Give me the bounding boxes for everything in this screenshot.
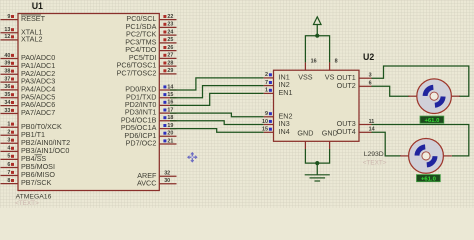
U1 pin 26 PC4/TDO: [125, 45, 176, 54]
U1 pin 6 PB5/MOSI: [1, 162, 55, 171]
svg-text:16: 16: [311, 59, 317, 65]
svg-text:12: 12: [4, 34, 10, 40]
wire power rail to VSS and VS: [305, 36, 329, 63]
svg-text:OUT4: OUT4: [337, 127, 356, 136]
svg-text:9: 9: [265, 111, 268, 117]
U2 pin 11 OUT3: [337, 119, 375, 128]
svg-text:4: 4: [7, 146, 10, 152]
U1 pin 14 PD0/RXD: [125, 84, 176, 93]
U1 pin 24 PC2/TCK: [126, 29, 176, 38]
U1 pin 5 PB4/SS: [1, 154, 47, 163]
svg-text:<TEXT>: <TEXT>: [15, 200, 39, 207]
wire OUT1 to motor M1 right: [372, 66, 469, 96]
IC U2 L293D body: [274, 70, 360, 141]
U1 pin 32 AREF: [137, 171, 176, 180]
svg-text:26: 26: [167, 45, 173, 51]
svg-text:RESET: RESET: [21, 14, 46, 23]
svg-text:28: 28: [167, 60, 173, 66]
U1 pin 36 PA4/ADC4: [1, 84, 56, 93]
U1 pin 25 PC3/TMS: [125, 37, 176, 46]
svg-text:8: 8: [335, 59, 338, 65]
U2 pin 10 IN3: [262, 119, 290, 128]
svg-text:27: 27: [167, 53, 173, 59]
svg-text:GND: GND: [297, 128, 313, 137]
svg-text:PD7/OC2: PD7/OC2: [126, 139, 157, 148]
svg-text:VS: VS: [325, 73, 335, 82]
svg-text:PB7/SCK: PB7/SCK: [21, 178, 52, 187]
wire OUT4 to motor M2 left: [372, 132, 402, 156]
svg-text:6: 6: [369, 81, 372, 87]
U1 pin 16 PD2/INT0: [125, 100, 177, 109]
svg-text:3: 3: [369, 73, 372, 79]
svg-text:9: 9: [7, 14, 10, 20]
svg-text:PC7/TOSC2: PC7/TOSC2: [117, 69, 157, 78]
U2 pin 15 IN4: [262, 127, 290, 136]
junction power node: [315, 34, 319, 38]
U1 pin 33 PA7/ADC7: [1, 108, 56, 117]
svg-text:35: 35: [4, 92, 10, 98]
U1 pin 21 PD7/OC2: [126, 138, 177, 147]
U2 pin 1 EN1: [264, 88, 293, 97]
cursor crosshair: [188, 153, 197, 162]
svg-text:40: 40: [4, 53, 10, 59]
wire PD4 to IN3: [170, 121, 264, 125]
U1 pin 1 PB0/T0/XCK: [1, 122, 62, 131]
U1 pin 30 AVCC: [137, 178, 177, 187]
U1 pin 38 PA2/ADC2: [1, 69, 56, 78]
U1 pin 8 PB7/SCK: [1, 178, 52, 187]
wire OUT2 to motor M1 left: [372, 86, 410, 96]
U2 pin 9 EN2: [264, 111, 293, 120]
svg-text:36: 36: [4, 84, 10, 90]
svg-text:U2: U2: [363, 52, 374, 62]
wire PD3 to EN2: [170, 113, 264, 117]
U2 pin 8 VS: [325, 59, 338, 82]
svg-text:34: 34: [4, 100, 10, 106]
svg-text:29: 29: [167, 68, 173, 74]
U1 pin 28 PC6/TOSC1: [117, 60, 177, 69]
wire PD0 to IN1: [170, 78, 264, 90]
svg-text:1: 1: [7, 122, 10, 128]
U1 pin 12 XTAL2: [1, 34, 43, 43]
U1 pin 18 PD4/OC1B: [121, 115, 177, 124]
svg-text:PA7/ADC7: PA7/ADC7: [21, 108, 55, 117]
U1 pin 7 PB6/MISO: [1, 170, 56, 179]
U2 pin 14 OUT4: [337, 127, 375, 136]
motor M2 speed display +61.0: [417, 175, 441, 183]
U2 pin 3 OUT1: [337, 73, 372, 82]
svg-text:2: 2: [265, 72, 268, 78]
svg-text:OUT2: OUT2: [337, 81, 356, 90]
U1 pin 29 PC7/TOSC2: [117, 68, 177, 77]
svg-text:3: 3: [7, 138, 10, 144]
U2 pin 6 OUT2: [337, 81, 372, 90]
wire OUT3 to motor M2 right: [372, 125, 469, 156]
wire GND pins to ground: [305, 149, 329, 163]
svg-text:2: 2: [7, 130, 10, 136]
svg-text:5: 5: [7, 154, 10, 160]
U1 pin 17 PD3/INT1: [125, 107, 177, 116]
U1 pin 22 PC0/SCL: [126, 14, 176, 23]
svg-text:L293D: L293D: [364, 151, 384, 158]
svg-text:33: 33: [4, 108, 10, 114]
svg-text:U1: U1: [32, 1, 43, 11]
U2 pin GND right: [322, 128, 338, 149]
U2 pin 7 IN2: [264, 80, 290, 89]
svg-text:21: 21: [167, 138, 173, 144]
svg-text:XTAL2: XTAL2: [21, 35, 42, 44]
svg-text:15: 15: [262, 127, 268, 133]
svg-text:25: 25: [167, 37, 173, 43]
svg-text:13: 13: [4, 27, 10, 33]
svg-text:32: 32: [164, 171, 170, 177]
svg-text:22: 22: [167, 14, 173, 20]
wire ground stem: [316, 163, 318, 175]
U1 pin 3 PB2/AIN0/INT2: [1, 138, 71, 147]
U2 pin GND left: [297, 128, 313, 149]
U1 pin 40 PA0/ADC0: [1, 53, 56, 62]
svg-text:24: 24: [167, 29, 173, 35]
IC U1 ATMEGA16 body: [18, 14, 159, 191]
U1 pin 34 PA6/ADC6: [1, 100, 56, 109]
motor M1: [408, 79, 460, 114]
U1 pin 9 RESET: [1, 14, 46, 23]
U1 pin 4 PB3/AIN1/OC0: [1, 146, 70, 155]
svg-text:38: 38: [4, 69, 10, 75]
U1 pin 35 PA5/ADC5: [1, 92, 56, 101]
U1 pin 37 PA3/ADC3: [1, 76, 56, 85]
svg-text:IN4: IN4: [279, 127, 290, 136]
U2 pin 2 IN1: [264, 72, 290, 81]
U1 pin 13 XTAL1: [1, 27, 43, 36]
svg-text:GND: GND: [322, 128, 338, 137]
svg-text:<TEXT>: <TEXT>: [363, 160, 387, 167]
U1 pin 15 PD1/TXD: [126, 92, 176, 101]
motor M2: [400, 139, 452, 174]
U1 pin 19 PD5/OC1A: [121, 123, 177, 132]
U1 pin 27 PC5/TDI: [129, 53, 177, 62]
motor M1 speed display +61.0: [420, 116, 444, 124]
svg-text:+61.0: +61.0: [421, 176, 437, 182]
U1 pin 2 PB1/T1: [1, 130, 45, 139]
svg-text:39: 39: [4, 61, 10, 67]
svg-text:37: 37: [4, 76, 10, 82]
svg-text:7: 7: [265, 80, 268, 86]
svg-text:EN1: EN1: [279, 88, 293, 97]
svg-text:20: 20: [167, 131, 173, 137]
svg-text:23: 23: [167, 22, 173, 28]
svg-text:6: 6: [7, 162, 10, 168]
junction ground node: [315, 161, 319, 165]
U1 pin 20 PD6/ICP1: [124, 131, 176, 140]
wire PD1 to IN2: [170, 86, 264, 98]
ground symbol: [305, 175, 330, 181]
svg-text:VSS: VSS: [298, 73, 313, 82]
svg-text:1: 1: [265, 88, 268, 94]
U1 pin 23 PC1/SDA: [126, 22, 177, 31]
svg-text:10: 10: [262, 119, 268, 125]
svg-text:AVCC: AVCC: [137, 178, 156, 187]
wire PD5 to IN4: [170, 129, 264, 133]
U1 pin 39 PA1/ADC1: [1, 61, 56, 70]
svg-text:8: 8: [7, 178, 10, 184]
power symbol VCC arrow: [313, 17, 321, 36]
svg-text:7: 7: [7, 170, 10, 176]
U2 pin 16 VSS: [298, 59, 316, 82]
svg-text:30: 30: [164, 178, 170, 184]
wire PD2 to EN1: [170, 93, 264, 105]
svg-text:+61.0: +61.0: [424, 118, 440, 124]
